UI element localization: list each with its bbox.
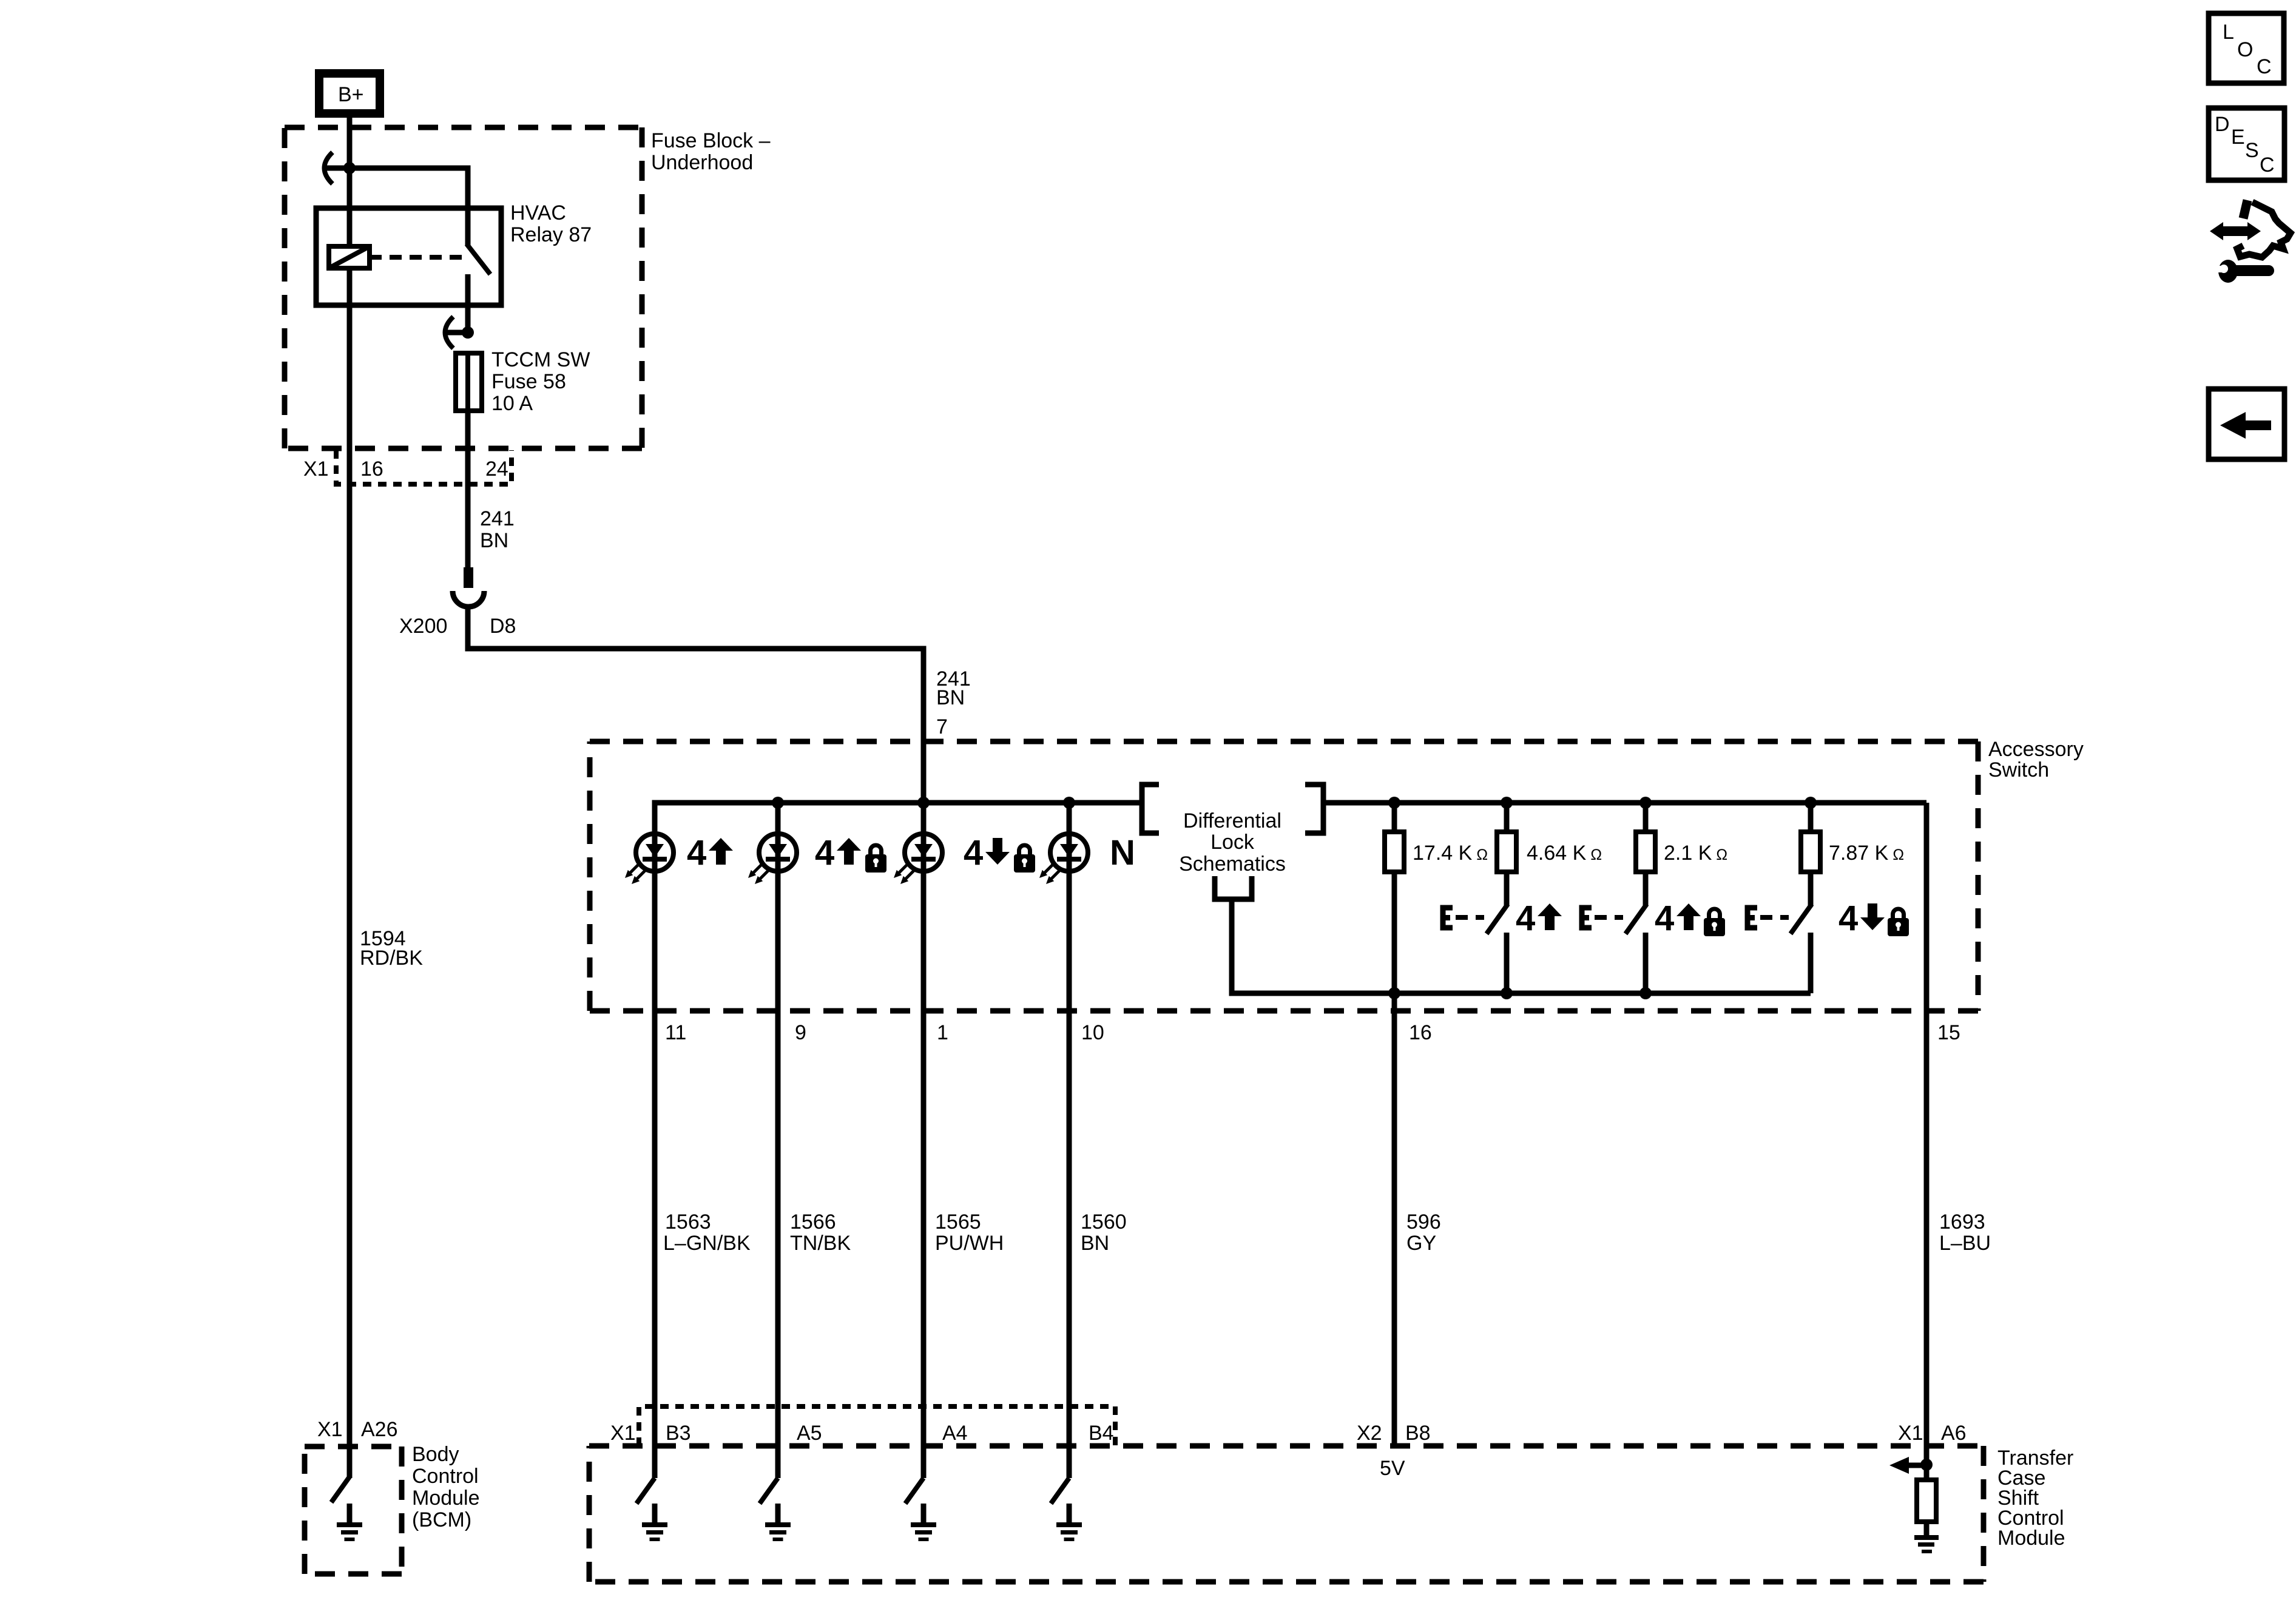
svg-text:GY: GY — [1406, 1232, 1436, 1255]
wire switch 3 to return bus — [1643, 933, 1649, 993]
svg-text:Module: Module — [412, 1487, 480, 1510]
svg-text:4: 4 — [687, 833, 706, 873]
junction dot switch2 return — [1501, 987, 1513, 999]
connector X1 accessory switch dotted outline — [639, 1406, 1115, 1446]
svg-text:Relay 87: Relay 87 — [510, 223, 592, 246]
ground switch 2 — [765, 1504, 791, 1541]
svg-text:N: N — [1110, 833, 1135, 873]
svg-text:4: 4 — [1838, 899, 1858, 938]
svg-text:TCCM SW: TCCM SW — [491, 348, 590, 371]
wire to pull-up resistor — [1924, 1465, 1930, 1480]
off-page bracket right — [1305, 785, 1323, 833]
svg-text:D: D — [2215, 113, 2230, 136]
wire R4 branch — [1808, 803, 1814, 832]
svg-text:L–BU: L–BU — [1939, 1232, 1991, 1255]
switch 4LO lock dashed actuator — [1760, 915, 1789, 920]
junction splice at fuse block feed — [343, 162, 356, 174]
svg-text:C: C — [2257, 55, 2272, 78]
ground switch 1 — [642, 1504, 667, 1541]
switch 4HI dashed actuator — [1456, 915, 1484, 920]
LED indicator 4HI — [625, 834, 674, 884]
wire LED2 circuit 1566 — [775, 803, 781, 1478]
relay switch blade — [467, 244, 490, 274]
svg-text:A5: A5 — [797, 1422, 822, 1445]
svg-text:B4: B4 — [1089, 1422, 1114, 1445]
svg-text:Body: Body — [412, 1443, 459, 1466]
svg-text:D8: D8 — [490, 615, 516, 638]
svg-text:B+: B+ — [338, 83, 364, 106]
junction dot R1 bus — [1388, 797, 1400, 809]
switch 4HI lock dashed actuator — [1595, 915, 1623, 920]
svg-text:1563: 1563 — [665, 1210, 711, 1234]
svg-text:L: L — [2223, 21, 2234, 44]
switch 4HI lock blade — [1626, 904, 1647, 934]
wire stub to clip — [325, 166, 349, 171]
wire LED4 circuit 1560 — [1067, 803, 1072, 1478]
svg-text:1565: 1565 — [935, 1210, 981, 1234]
svg-text:TN/BK: TN/BK — [790, 1232, 851, 1255]
resistor transfer case internal — [1917, 1480, 1936, 1522]
switch 4HI E terminal — [1443, 908, 1453, 928]
LED indicator 4LO LOCK — [894, 834, 942, 884]
svg-text:X200: X200 — [399, 615, 447, 638]
wire switch 2 to return bus — [1504, 933, 1510, 993]
wire R3 branch — [1643, 803, 1649, 832]
wire splice to relay switch contact — [349, 168, 468, 245]
svg-text:X1: X1 — [303, 457, 329, 481]
svg-text:RD/BK: RD/BK — [360, 947, 423, 970]
connector X1 dotted outline — [336, 450, 512, 484]
clip terminal symbol at splice — [325, 152, 333, 184]
fuse block underhood dashed box — [285, 127, 642, 448]
svg-text:1560: 1560 — [1081, 1210, 1127, 1234]
svg-text:BN: BN — [936, 686, 965, 709]
resistor R2 4.64 K — [1497, 832, 1516, 872]
switch 4HI lock E terminal — [1582, 908, 1592, 928]
svg-text:X1: X1 — [317, 1418, 343, 1441]
junction dot LED4 — [1063, 797, 1075, 809]
svg-text:PU/WH: PU/WH — [935, 1232, 1004, 1255]
svg-text:10: 10 — [1081, 1021, 1104, 1044]
wire resistor to ground — [1924, 1522, 1930, 1537]
switch 2 blade to ground — [760, 1478, 778, 1504]
svg-text:B8: B8 — [1405, 1422, 1431, 1445]
LED indicator N — [1039, 834, 1088, 884]
switch 4HI blade — [1487, 904, 1508, 934]
svg-text:C: C — [2260, 154, 2275, 177]
B+ battery feed box — [319, 73, 380, 113]
wire diff lock reference to resistor return bus — [1232, 899, 1394, 993]
LOC navigation box — [2209, 13, 2284, 83]
svg-text:7: 7 — [936, 715, 948, 738]
svg-text:15: 15 — [1937, 1021, 1960, 1044]
svg-text:1566: 1566 — [790, 1210, 836, 1234]
wire X200 to accessory switch — [468, 606, 923, 803]
ground transfer case internal — [1914, 1535, 1939, 1540]
svg-text:1693: 1693 — [1939, 1210, 1985, 1234]
relay HVAC Relay 87 box — [316, 208, 501, 305]
junction dot feed — [917, 797, 930, 809]
svg-text:4: 4 — [1655, 899, 1674, 938]
svg-text:X1: X1 — [1898, 1422, 1923, 1445]
wire B+ to BCM (left vertical, circuit 1594) — [347, 113, 353, 1478]
svg-text:16: 16 — [360, 457, 383, 481]
switch 4LO lock blade — [1791, 904, 1812, 934]
svg-text:S: S — [2245, 139, 2259, 162]
DESC navigation box — [2209, 108, 2284, 180]
svg-text:Schematics: Schematics — [1179, 852, 1286, 876]
svg-text:O: O — [2237, 38, 2253, 61]
back arrow box — [2209, 389, 2284, 459]
relay switch lower contact wire — [465, 274, 471, 333]
ground BCM internal — [337, 1504, 362, 1541]
resistor R4 7.87 K — [1801, 832, 1820, 872]
svg-text:Module: Module — [1997, 1527, 2065, 1550]
wire R3 to switch 3 — [1643, 872, 1649, 905]
junction dot LED2 — [772, 797, 784, 809]
svg-text:9: 9 — [795, 1021, 806, 1044]
svg-text:BN: BN — [1081, 1232, 1109, 1255]
svg-text:Accessory: Accessory — [1988, 738, 2084, 761]
switch 3 blade to ground — [905, 1478, 923, 1504]
svg-text:X2: X2 — [1357, 1422, 1382, 1445]
wire resistor supply bus — [1323, 800, 1926, 806]
svg-text:Fuse 58: Fuse 58 — [491, 370, 566, 393]
svg-text:Underhood: Underhood — [651, 151, 753, 174]
svg-text:Differential: Differential — [1183, 809, 1281, 832]
svg-text:A26: A26 — [361, 1418, 398, 1441]
svg-text:B3: B3 — [666, 1422, 691, 1445]
junction dot switch3 return — [1639, 987, 1652, 999]
svg-text:X1: X1 — [610, 1422, 636, 1445]
connector X200 pin D8 inline — [464, 567, 473, 588]
svg-text:4: 4 — [815, 833, 834, 873]
resistor R3 2.1 K — [1636, 832, 1655, 872]
svg-text:E: E — [2231, 126, 2245, 149]
relay actuation dashed link — [370, 255, 462, 260]
svg-text:4: 4 — [1516, 899, 1535, 938]
junction dot R1 return bus — [1388, 987, 1400, 999]
svg-text:1: 1 — [937, 1021, 948, 1044]
switch 4 blade to ground — [1051, 1478, 1069, 1504]
svg-text:HVAC: HVAC — [510, 201, 566, 224]
svg-text:5V: 5V — [1380, 1457, 1405, 1480]
reference cup bracket — [1215, 876, 1252, 899]
junction splice above fuse 58 — [462, 326, 474, 339]
switch 1 blade to ground — [636, 1478, 655, 1504]
svg-text:Switch: Switch — [1988, 758, 2049, 781]
svg-text:L–GN/BK: L–GN/BK — [663, 1232, 751, 1255]
resistor R1 17.4 K — [1385, 832, 1404, 872]
svg-text:10 A: 10 A — [491, 392, 533, 415]
junction dot R4 bus — [1805, 797, 1817, 809]
wire R1 branch circuit 596 — [1392, 803, 1397, 1446]
svg-text:11: 11 — [665, 1021, 686, 1044]
junction dot R2 bus — [1501, 797, 1513, 809]
svg-text:24: 24 — [485, 457, 508, 481]
fuse F58 TCCM SW — [456, 353, 482, 411]
junction dot R3 bus — [1639, 797, 1652, 809]
clip terminal symbol above fuse — [445, 317, 454, 348]
wire switch 4 to return bus — [1808, 933, 1814, 993]
wire R4 to switch 4 — [1808, 872, 1814, 905]
relay coil — [329, 246, 370, 268]
wire switch return bus — [1232, 991, 1811, 996]
wire LED3 circuit 1565 — [921, 803, 927, 1478]
svg-text:241: 241 — [480, 507, 515, 530]
wire LED supply bus — [655, 803, 1142, 834]
svg-text:596: 596 — [1406, 1210, 1441, 1234]
svg-text:Lock: Lock — [1210, 831, 1255, 854]
svg-text:A4: A4 — [942, 1422, 968, 1445]
wire stub to clip — [446, 330, 468, 336]
wire R2 to switch 2 — [1504, 872, 1510, 905]
wire LED1 circuit 1563 — [652, 803, 658, 1478]
ground switch 3 — [911, 1504, 936, 1541]
svg-text:(BCM): (BCM) — [412, 1508, 471, 1531]
off-page bracket left — [1142, 785, 1159, 833]
svg-text:4: 4 — [964, 833, 983, 873]
svg-text:BN: BN — [480, 529, 508, 552]
LED indicator 4HI LOCK — [748, 834, 797, 884]
svg-text:Fuse Block –: Fuse Block – — [651, 129, 771, 152]
junction dot transfer case input — [1920, 1459, 1933, 1471]
diagnostic hand tool icon — [2210, 200, 2291, 283]
ground switch 4 — [1056, 1504, 1082, 1541]
signal arrow transfer case — [1908, 1463, 1926, 1468]
svg-text:16: 16 — [1409, 1021, 1432, 1044]
wire circuit 1693 right vertical — [1924, 803, 1930, 1468]
BCM internal switch blade — [331, 1477, 349, 1502]
accessory switch dashed box — [590, 741, 1978, 1011]
svg-text:Control: Control — [412, 1465, 479, 1488]
svg-text:A6: A6 — [1941, 1422, 1967, 1445]
wire fuse to X200 — [465, 411, 471, 569]
accessory switch module dashed box — [589, 1446, 1984, 1582]
wire R2 branch — [1504, 803, 1510, 832]
switch 4LO lock E terminal — [1747, 908, 1757, 928]
BCM dashed box — [305, 1447, 402, 1574]
